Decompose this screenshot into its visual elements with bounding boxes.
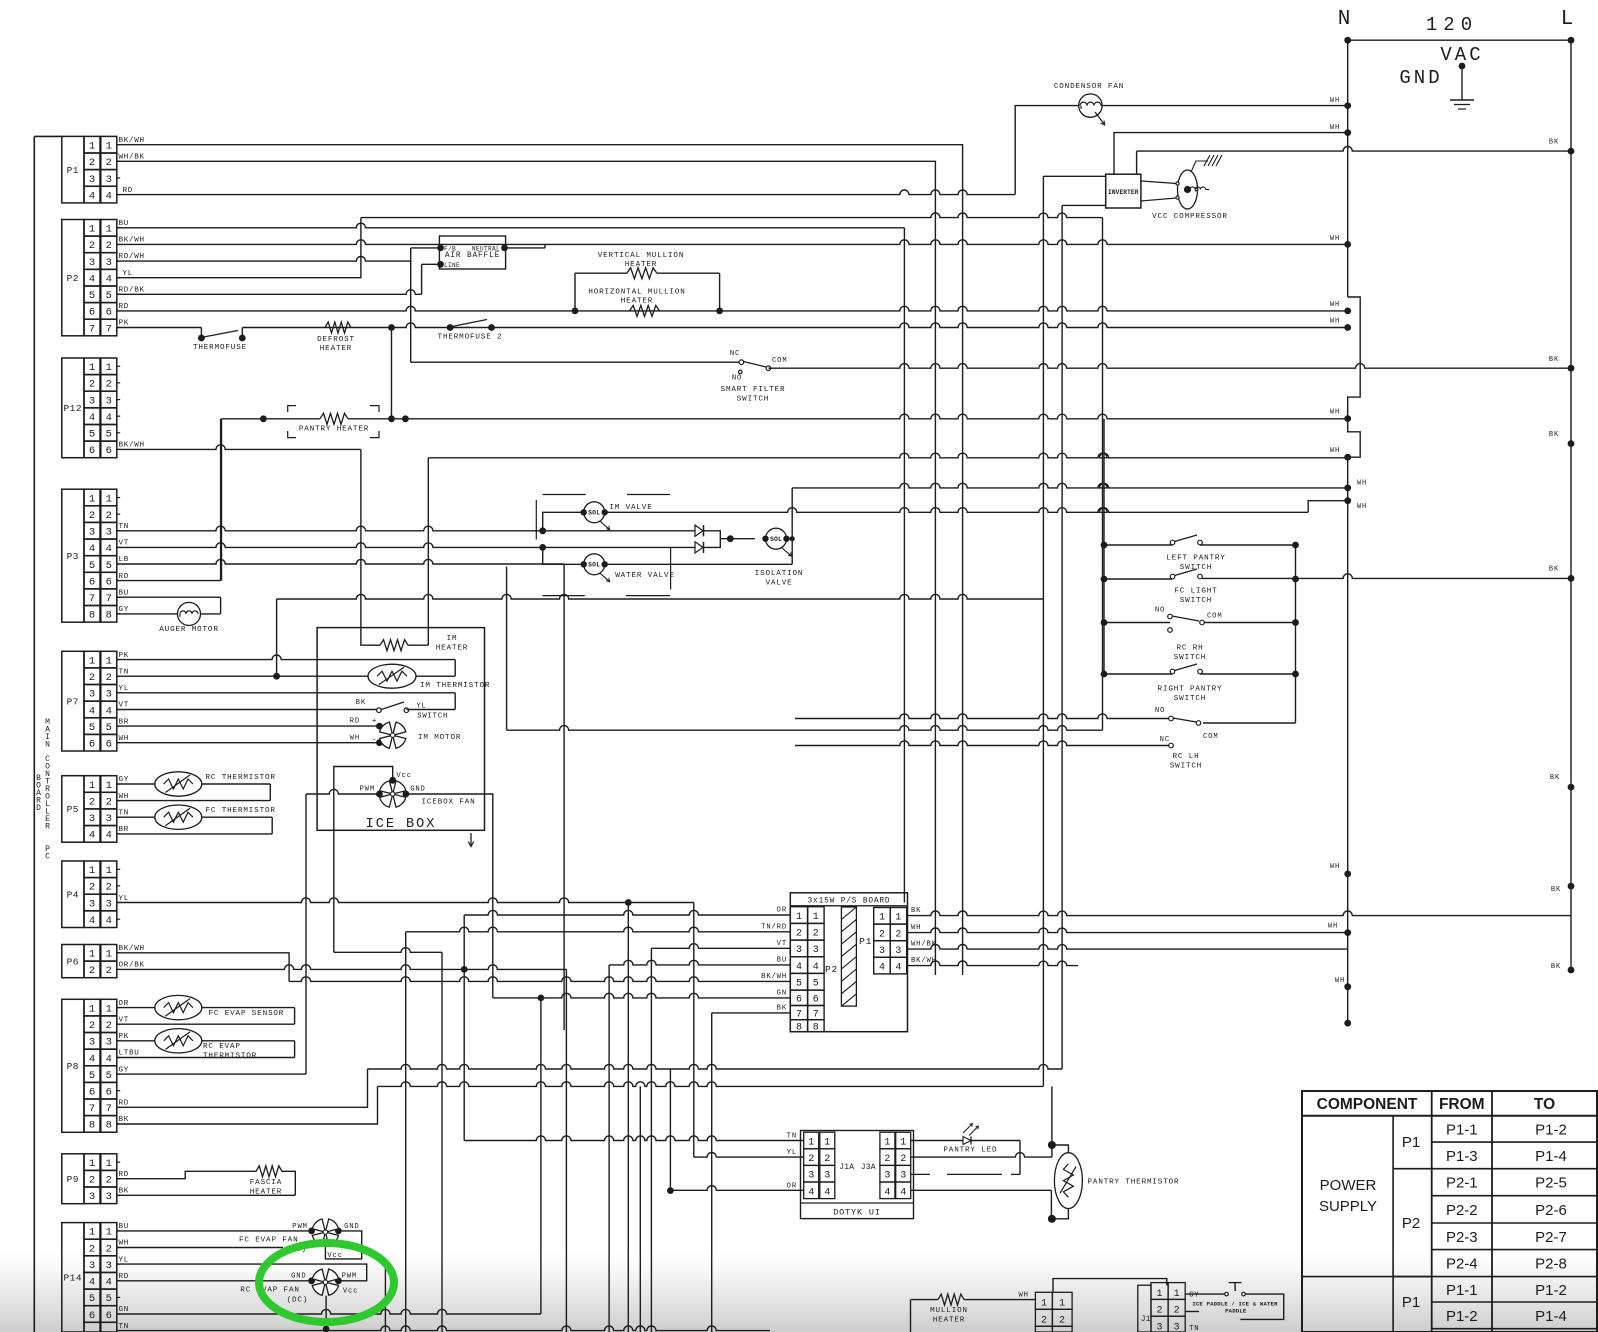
svg-text:BK/WH: BK/WH (119, 945, 145, 953)
wire P8-5 GY (117, 1073, 306, 1075)
svg-text:VALVE: VALVE (765, 580, 792, 588)
svg-text:P1-1: P1-1 (1446, 1121, 1478, 1138)
svg-text:2: 2 (884, 1154, 890, 1165)
wire vertical v651 down (650, 948, 652, 1332)
wire P14-7 TN (117, 1326, 770, 1331)
wire P2-3 RD/WH to air baffle line (117, 257, 411, 262)
wire P2-4 YL up and right (117, 218, 361, 278)
svg-text:SOL: SOL (588, 562, 600, 569)
svg-text:3: 3 (106, 1037, 112, 1049)
svg-text:4: 4 (106, 915, 112, 927)
svg-text:2: 2 (106, 510, 112, 522)
node L BK dot y787 (1568, 784, 1575, 791)
svg-text:7: 7 (106, 323, 112, 335)
svg-text:2: 2 (824, 1154, 830, 1165)
svg-text:6: 6 (796, 995, 802, 1006)
diode D2 (695, 542, 703, 553)
svg-text:OR: OR (119, 1000, 130, 1008)
svg-text:GN: GN (119, 1306, 130, 1314)
svg-text:C: C (45, 853, 50, 862)
wire inverter to L (BK) (1136, 151, 1138, 174)
svg-text:RD: RD (119, 573, 130, 581)
svg-text:SWITCH: SWITCH (1180, 564, 1212, 572)
svg-text:2: 2 (89, 672, 95, 684)
svg-text:BK: BK (1550, 774, 1560, 782)
pantry thermistor RT6 (1054, 1153, 1082, 1209)
diode output junction (704, 531, 721, 539)
svg-text:P2-6: P2-6 (1535, 1202, 1567, 1219)
svg-text:8: 8 (89, 610, 95, 622)
svg-text:GY: GY (1189, 1292, 1199, 1300)
svg-text:3: 3 (106, 898, 112, 910)
svg-text:5: 5 (89, 429, 95, 441)
svg-text:2: 2 (106, 672, 112, 684)
svg-text:WATER VALVE: WATER VALVE (615, 572, 674, 580)
svg-text:2: 2 (796, 929, 802, 940)
svg-text:BK/WH: BK/WH (119, 137, 145, 145)
svg-text:P1-2: P1-2 (1446, 1308, 1478, 1325)
wire inverter to N (WH) (1114, 133, 1348, 175)
wire P3-5 LB down (117, 559, 564, 564)
wire J3A-4 to pantry thermistor bottom (911, 1189, 1052, 1191)
svg-text:8: 8 (106, 610, 112, 622)
svg-text:ISOLATION: ISOLATION (755, 570, 804, 578)
svg-text:J3A: J3A (861, 1163, 876, 1172)
svg-text:OR/BK: OR/BK (119, 962, 145, 970)
svg-text:1: 1 (1156, 1289, 1162, 1300)
svg-text:VERTICAL MULLION: VERTICAL MULLION (598, 252, 685, 260)
wire fc evap fan vcc loop (325, 1231, 361, 1259)
svg-text:P2: P2 (1402, 1215, 1420, 1232)
svg-text:8: 8 (106, 1120, 112, 1132)
condensor fan (1079, 94, 1102, 117)
svg-text:1: 1 (900, 1138, 906, 1149)
node L BK dot y443.6 (1568, 440, 1575, 447)
svg-text:1: 1 (89, 362, 95, 374)
svg-text:COMPONENT: COMPONENT (1317, 1096, 1418, 1113)
svg-text:LINE: LINE (444, 262, 460, 269)
svg-text:5: 5 (106, 1070, 112, 1082)
svg-text:WH: WH (911, 924, 921, 932)
im motor M3 (376, 723, 383, 730)
svg-text:P2-7: P2-7 (1535, 1229, 1567, 1246)
svg-text:2: 2 (106, 379, 112, 391)
valve cluster dashed brackets (543, 494, 586, 496)
svg-text:2: 2 (895, 929, 901, 940)
svg-text:AUGER MOTOR: AUGER MOTOR (159, 626, 218, 634)
wire P7-3 YL (switch loop) (117, 692, 455, 694)
svg-text:2: 2 (89, 240, 95, 252)
svg-text:RD: RD (350, 718, 360, 726)
wire switch right bus (1295, 544, 1297, 723)
svg-text:HEATER: HEATER (933, 1317, 965, 1325)
wire inverter left pin to bus inv1 (1043, 175, 1105, 177)
svg-text:PK: PK (119, 320, 130, 328)
svg-text:3: 3 (106, 1260, 112, 1272)
wire P2-2 BK/WH to N (WH) (117, 240, 1348, 245)
svg-text:3: 3 (106, 527, 112, 539)
svg-text:1: 1 (1059, 1298, 1065, 1309)
svg-text:WH: WH (119, 793, 130, 801)
table subdividers P1/P2 (1393, 1168, 1432, 1170)
svg-text:2: 2 (89, 1175, 95, 1187)
svg-text:WH: WH (1335, 977, 1345, 985)
svg-text:5: 5 (89, 1293, 95, 1305)
wire N rail (1347, 40, 1349, 297)
svg-text:1: 1 (89, 865, 95, 877)
svg-text:GY: GY (119, 606, 130, 614)
svg-text:P8: P8 (67, 1061, 79, 1072)
wire P8-8 BK long row to inverter bus (117, 1086, 378, 1124)
svg-text:1: 1 (89, 493, 95, 505)
svg-text:SWITCH: SWITCH (1180, 597, 1212, 605)
svg-text:4: 4 (813, 962, 819, 973)
wire vertical v442 down (441, 952, 443, 1332)
svg-text:5: 5 (106, 290, 112, 302)
svg-text:6: 6 (106, 445, 112, 457)
svg-text:WH: WH (1330, 863, 1340, 871)
svg-text:4: 4 (808, 1187, 814, 1198)
svg-text:3: 3 (796, 945, 802, 956)
wire P3-6 RD up to pantry (117, 580, 221, 582)
svg-text:DEFROST: DEFROST (317, 336, 355, 344)
svg-text:2: 2 (813, 929, 819, 940)
wire smart filter COM to L (BK) (768, 364, 1571, 369)
svg-text:1: 1 (895, 913, 901, 924)
svg-text:PK: PK (119, 652, 130, 660)
svg-text:VT: VT (119, 1016, 130, 1024)
svg-text:N: N (45, 740, 50, 749)
power supply board box (790, 893, 907, 1032)
svg-text:P1: P1 (67, 165, 79, 176)
svg-text:8: 8 (89, 1120, 95, 1132)
svg-text:RD/WH: RD/WH (119, 253, 145, 261)
im heater R5 (380, 640, 408, 651)
wire vertical v405 down (405, 932, 407, 1332)
wire P6-1 BK/WH rerouted to P/S P2-5 (117, 953, 289, 982)
icebox fan M4 (393, 794, 406, 807)
svg-text:HEATER: HEATER (436, 645, 468, 653)
svg-text:P4: P4 (67, 889, 79, 900)
svg-text:+: + (372, 718, 377, 726)
svg-text:6: 6 (89, 445, 95, 457)
svg-text:SOL: SOL (770, 536, 782, 543)
svg-text:1: 1 (1174, 1289, 1180, 1300)
wire rc evap fan vcc down (325, 1296, 327, 1329)
svg-text:CONDENSOR FAN: CONDENSOR FAN (1054, 83, 1124, 91)
wire P2-5 RD/BK to air baffle LINE (117, 290, 422, 295)
svg-text:RD: RD (119, 1273, 130, 1281)
svg-text:GN: GN (777, 989, 787, 997)
svg-text:BK/WH: BK/WH (119, 237, 145, 245)
svg-text:4: 4 (89, 1053, 95, 1065)
svg-text:WH: WH (1018, 1292, 1028, 1300)
node L BK dot y970 (end) (1568, 967, 1575, 974)
svg-text:SWITCH: SWITCH (1174, 654, 1206, 662)
svg-text:FROM: FROM (1439, 1096, 1485, 1113)
svg-text:BK/WH: BK/WH (119, 442, 145, 450)
wire top rail N-L (1348, 39, 1571, 41)
ps board P2 connector cells (790, 907, 807, 924)
svg-text:COM: COM (772, 357, 788, 365)
svg-text:4: 4 (884, 1187, 890, 1198)
svg-text:WH: WH (1357, 503, 1367, 511)
rc thermistor RT2 (117, 783, 155, 785)
svg-text:WH: WH (1330, 301, 1340, 309)
svg-text:3: 3 (106, 174, 112, 186)
rc evap thermistor RT5 (117, 1040, 155, 1042)
svg-text:Vcc: Vcc (327, 1252, 343, 1260)
svg-text:1: 1 (106, 780, 112, 792)
svg-text:IM: IM (447, 635, 458, 643)
svg-text:YL: YL (119, 685, 130, 693)
svg-text:1: 1 (89, 1158, 95, 1170)
svg-text:WH: WH (350, 735, 360, 743)
svg-text:5: 5 (106, 722, 112, 734)
wire vertical v628 down (627, 903, 629, 1332)
svg-text:SMART FILTER: SMART FILTER (721, 386, 786, 394)
svg-text:7: 7 (796, 1009, 802, 1020)
svg-text:6: 6 (106, 1087, 112, 1099)
svg-text:3: 3 (106, 813, 112, 825)
wire isolation valve right (787, 538, 792, 540)
svg-text:BK: BK (119, 1116, 130, 1124)
svg-text:2: 2 (89, 965, 95, 977)
svg-text:IM THERMISTOR: IM THERMISTOR (420, 682, 490, 690)
water valve branch (543, 547, 584, 564)
svg-text:VT: VT (119, 702, 130, 710)
svg-text:4: 4 (900, 1187, 906, 1198)
svg-text:3: 3 (106, 257, 112, 269)
rc evap fan M6 (308, 1277, 315, 1284)
svg-text:YL: YL (119, 895, 130, 903)
svg-text:GY: GY (119, 1066, 130, 1074)
svg-text:1: 1 (1041, 1298, 1047, 1309)
svg-text:8: 8 (796, 1023, 802, 1034)
svg-text:4: 4 (106, 190, 112, 202)
svg-text:NEUTRAL: NEUTRAL (472, 246, 500, 253)
svg-text:BK: BK (356, 699, 366, 707)
svg-text:2: 2 (1041, 1315, 1047, 1326)
svg-text:TN: TN (119, 1323, 130, 1331)
mullion heater R7 (910, 1300, 912, 1332)
wire inverter left pin to bus inv2 (1062, 204, 1106, 206)
svg-text:THERMISTOR: THERMISTOR (203, 1053, 257, 1061)
svg-text:TN: TN (787, 1133, 797, 1141)
svg-text:P2-4: P2-4 (1446, 1256, 1478, 1273)
svg-text:1: 1 (106, 1003, 112, 1015)
wire vertical v711 down (711, 1013, 713, 1332)
connector P4 (62, 861, 84, 928)
svg-text:MULLION: MULLION (930, 1307, 968, 1315)
svg-text:4: 4 (879, 963, 885, 974)
wire icebox fan Vcc loop (334, 767, 393, 953)
svg-text:3: 3 (106, 689, 112, 701)
wire P8-7 RD long row to inverter bus (117, 1069, 368, 1107)
svg-text:P9: P9 (67, 1174, 79, 1185)
svg-text:BU: BU (119, 589, 130, 597)
wire switch left bus (1103, 419, 1105, 674)
svg-text:INVERTER: INVERTER (1108, 189, 1139, 196)
svg-text:BK: BK (1551, 963, 1561, 971)
svg-text:YL: YL (119, 1256, 130, 1264)
wire P7-5 BR to IM motor (117, 725, 379, 727)
svg-text:WH: WH (1330, 409, 1340, 417)
connector P7 (62, 651, 84, 751)
svg-text:6: 6 (813, 995, 819, 1006)
svg-text:P12: P12 (63, 403, 82, 414)
svg-text:7: 7 (106, 593, 112, 605)
svg-text:1: 1 (89, 780, 95, 792)
svg-text:2: 2 (89, 510, 95, 522)
svg-text:BK: BK (1549, 356, 1559, 364)
svg-text:J1: J1 (1141, 1315, 1151, 1324)
wire J3A-3 dashed (911, 1173, 930, 1175)
svg-text:6: 6 (89, 576, 95, 588)
pantry led D3 (911, 1140, 963, 1142)
svg-text:5: 5 (813, 979, 819, 990)
svg-text:4: 4 (106, 274, 112, 286)
svg-text:HEATER: HEATER (250, 1189, 282, 1197)
svg-text:L: L (1561, 8, 1574, 31)
fc thermistor RT3 (117, 816, 155, 818)
svg-text:RD/BK: RD/BK (119, 287, 145, 295)
wire condensor fan to N (WH) (1102, 105, 1348, 107)
svg-text:P5: P5 (67, 804, 79, 815)
green highlight ellipse annotation (259, 1243, 394, 1322)
svg-text:RD: RD (119, 1100, 130, 1108)
svg-text:P3: P3 (67, 551, 79, 562)
svg-text:7: 7 (106, 1103, 112, 1115)
svg-text:4: 4 (89, 1277, 95, 1289)
svg-text:2: 2 (808, 1154, 814, 1165)
svg-text:6: 6 (89, 307, 95, 319)
svg-text:PANTRY HEATER: PANTRY HEATER (299, 426, 369, 434)
wire icebox fan GND down to GN row (406, 794, 493, 998)
left pantry switch S4 (1101, 542, 1108, 549)
svg-text:RC LH: RC LH (1172, 753, 1199, 761)
svg-text:TO: TO (1534, 1096, 1555, 1113)
svg-text:PADDLE: PADDLE (1225, 1308, 1247, 1315)
svg-text:NO: NO (1155, 607, 1165, 615)
svg-text:NC: NC (730, 350, 740, 358)
svg-text:RIGHT PANTRY: RIGHT PANTRY (1158, 686, 1223, 694)
svg-text:VT: VT (777, 940, 787, 948)
wire vertical v693 down to J1A YL row (693, 903, 695, 1158)
svg-text:2: 2 (89, 882, 95, 894)
wire bus v1102 down (1102, 218, 1104, 731)
svg-text:1: 1 (89, 1003, 95, 1015)
svg-text:4: 4 (89, 190, 95, 202)
svg-text:3: 3 (89, 527, 95, 539)
wire vertical v539 down to P14 GN row (540, 998, 542, 1314)
wire P2-1 BU to bus (117, 223, 904, 228)
svg-text:3: 3 (824, 1171, 830, 1182)
svg-text:1: 1 (813, 912, 819, 923)
wire fascia heater loop (282, 1171, 296, 1195)
wire water valve to isolation valve vertical (605, 563, 792, 565)
svg-text:3: 3 (884, 1171, 890, 1182)
ps board P1 connector cells (874, 908, 891, 925)
ground symbol GND (1459, 63, 1466, 70)
wire P1-2 WH/BK to bus (117, 161, 935, 975)
svg-text:POWER: POWER (1320, 1177, 1377, 1194)
svg-text:4: 4 (89, 705, 95, 717)
wire icebox fan PWM to P8-5 GY (306, 789, 379, 794)
svg-text:NC: NC (1160, 736, 1170, 744)
svg-text:P6: P6 (67, 956, 79, 967)
svg-text:FASCIA: FASCIA (250, 1179, 282, 1187)
svg-text:WH: WH (1330, 447, 1340, 455)
svg-text:1: 1 (106, 493, 112, 505)
svg-text:3: 3 (89, 1260, 95, 1272)
svg-text:3: 3 (106, 395, 112, 407)
wire J1-2 stub (1185, 1311, 1199, 1313)
svg-text:3: 3 (895, 946, 901, 957)
svg-text:6: 6 (106, 576, 112, 588)
svg-text:2: 2 (89, 1243, 95, 1255)
svg-text:LB: LB (119, 556, 130, 564)
svg-text:P1-4: P1-4 (1535, 1308, 1567, 1325)
svg-text:5: 5 (106, 560, 112, 572)
svg-text:1: 1 (89, 949, 95, 961)
svg-text:COM: COM (1207, 613, 1223, 621)
svg-text:P1-4: P1-4 (1535, 1148, 1567, 1165)
svg-text:7: 7 (89, 323, 95, 335)
wire P1-4 RD up to condensor fan (1015, 106, 1078, 195)
wire vertical v566 down (565, 969, 567, 1332)
svg-text:P1-2: P1-2 (1535, 1282, 1567, 1299)
svg-text:1: 1 (106, 224, 112, 236)
svg-text:HEATER: HEATER (625, 261, 657, 269)
svg-text:1: 1 (89, 224, 95, 236)
defrost heater R1 (325, 322, 351, 333)
svg-text:2: 2 (1156, 1306, 1162, 1317)
svg-text:PWM: PWM (292, 1223, 308, 1231)
svg-text:1: 1 (808, 1138, 814, 1149)
dotyk ui board box (801, 1131, 914, 1219)
wire v385 vertical (384, 1266, 386, 1332)
svg-text:THERMOFUSE 2: THERMOFUSE 2 (438, 334, 503, 342)
svg-text:4: 4 (89, 830, 95, 842)
svg-text:BK: BK (1551, 886, 1561, 894)
svg-text:RD: RD (119, 1171, 130, 1179)
wire pantry heater to N (WH) (405, 414, 1347, 419)
pantry heater bracket marks (288, 406, 296, 412)
svg-text:P2: P2 (67, 273, 79, 284)
wire P14-3 YL to RC evap fan PWM (117, 1264, 367, 1281)
wire P7-1 PK (thermistor loop) (117, 655, 455, 660)
svg-text:5: 5 (89, 722, 95, 734)
svg-text:P1-3: P1-3 (1446, 1148, 1478, 1165)
svg-text:2: 2 (89, 157, 95, 169)
svg-text:WH: WH (119, 1240, 130, 1248)
svg-text:1: 1 (796, 912, 802, 923)
svg-text:LEFT PANTRY: LEFT PANTRY (1166, 555, 1225, 563)
svg-text:3: 3 (900, 1171, 906, 1182)
svg-text:1: 1 (106, 362, 112, 374)
ps board hatched bar (841, 907, 856, 1006)
svg-text:1: 1 (89, 1227, 95, 1239)
wire J3A-2 to pantry thermistor top (911, 1153, 1052, 1158)
svg-text:SWITCH: SWITCH (417, 713, 448, 721)
svg-text:AIR BAFFLE: AIR BAFFLE (445, 252, 500, 260)
svg-text:(DC): (DC) (287, 1297, 309, 1305)
main controller board frame (33, 136, 35, 1332)
svg-text:FC THERMISTOR: FC THERMISTOR (206, 807, 276, 815)
svg-text:6: 6 (106, 739, 112, 751)
connector P9 (62, 1154, 84, 1204)
